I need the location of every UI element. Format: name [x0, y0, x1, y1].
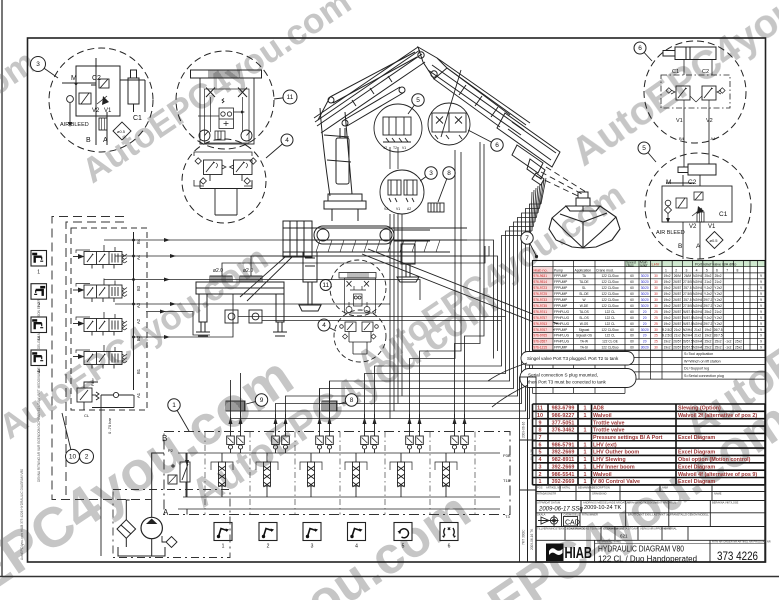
- svg-text:2: 2: [675, 268, 677, 272]
- detail 6 labels: [672, 69, 713, 124]
- svg-text:ø0.5: ø0.5: [710, 238, 719, 243]
- svg-text:257.5: 257.5: [684, 286, 692, 290]
- detail 5 B A drops: [683, 222, 700, 259]
- crane lift cylinder: [342, 87, 405, 126]
- leg lock valve left: [225, 310, 238, 323]
- svg-text:SL-DE: SL-DE: [579, 292, 588, 296]
- mid 11 frame: [345, 278, 376, 313]
- wire B4: [104, 238, 494, 359]
- detail 11 body frame: [200, 78, 254, 144]
- svg-text:B4: B4: [136, 238, 141, 244]
- svg-text:976-9763: 976-9763: [534, 322, 548, 326]
- mid 4 trunk: [349, 332, 371, 355]
- svg-text:C1: C1: [719, 211, 728, 218]
- svg-text:ø0.5: ø0.5: [117, 129, 126, 134]
- svg-text:30: 30: [654, 274, 658, 278]
- svg-text:0 -70 bar: 0 -70 bar: [107, 417, 112, 434]
- svg-text:122 CL-DE: 122 CL-DE: [602, 340, 618, 344]
- mid 11 center valve: [350, 286, 366, 306]
- crane valve circle S3: [380, 170, 424, 214]
- svg-text:N2/H4: N2/H4: [693, 322, 702, 326]
- svg-text:FPPUMP: FPPUMP: [554, 292, 567, 296]
- throttle item 9: [226, 401, 245, 411]
- note bubble 1: [488, 352, 634, 382]
- suction filter diamond: [117, 500, 136, 547]
- svg-text:19x2: 19x2: [664, 298, 671, 302]
- svg-text:26/57: 26/57: [673, 286, 681, 290]
- side disclaimer text (rotated): [20, 287, 41, 560]
- svg-text:25x2: 25x2: [735, 340, 742, 344]
- svg-text:SKALA: SKALA: [537, 513, 546, 517]
- detail circle 4: [182, 139, 266, 223]
- item list table: [537, 406, 757, 486]
- svg-text:19x2: 19x2: [664, 274, 671, 278]
- svg-text:3: 3: [429, 170, 433, 177]
- leg lock valve right: [249, 310, 262, 323]
- balloon 10: [62, 413, 80, 463]
- svg-text:N2/H4: N2/H4: [693, 304, 702, 308]
- detail 3 inner valves: [67, 79, 109, 127]
- svg-text:20: 20: [643, 340, 647, 344]
- svg-text:5: 5: [642, 145, 646, 152]
- item 9 risers: [231, 373, 241, 414]
- svg-text:5: 5: [706, 268, 708, 272]
- svg-text:26/57: 26/57: [673, 292, 681, 296]
- spool valve L3: [73, 312, 127, 336]
- svg-text:976-9767: 976-9767: [534, 328, 548, 332]
- svg-text:BRUTTOVIKT EXKL LAST/VIKT (kg): BRUTTOVIKT EXKL LAST/VIKT (kg): [628, 513, 671, 517]
- svg-text:25: 25: [654, 334, 658, 338]
- svg-text:V1: V1: [676, 118, 683, 124]
- detail 5 labels: [656, 179, 728, 250]
- svg-text:W: W: [582, 298, 585, 302]
- svg-text:-1x2: -1x2: [725, 346, 731, 350]
- detail circle 3: [49, 48, 153, 152]
- mid 4 valves: [340, 322, 379, 339]
- svg-text:V2: V2: [384, 207, 388, 211]
- svg-text:A: A: [103, 137, 108, 144]
- svg-text:A4: A4: [136, 254, 141, 260]
- svg-text:60: 60: [630, 292, 634, 296]
- detail 5 orifice diamond: [706, 232, 723, 249]
- svg-text:30/20: 30/20: [641, 286, 649, 290]
- svg-text:19x2: 19x2: [664, 322, 671, 326]
- svg-text:CADMODELL: CADMODELL: [564, 513, 581, 517]
- svg-text:Y.2x2: Y.2x2: [714, 298, 722, 302]
- svg-text:4: 4: [285, 137, 289, 144]
- svg-text:TA-SI: TA-SI: [580, 346, 588, 350]
- svg-text:MATERIAL: MATERIAL: [664, 526, 677, 530]
- svg-text:3: 3: [685, 268, 687, 272]
- valve bank B A labels: [162, 434, 169, 517]
- balloon 6 (crane): [468, 130, 503, 151]
- svg-text:FPHPLUG: FPHPLUG: [554, 316, 570, 320]
- svg-text:20: 20: [643, 334, 647, 338]
- svg-text:Sigvast: Sigvast: [579, 328, 590, 332]
- svg-text:26/M: 26/M: [684, 274, 691, 278]
- svg-text:A2: A2: [407, 207, 411, 211]
- svg-text:25: 25: [654, 316, 658, 320]
- svg-text:GRANSKAD: GRANSKAD: [592, 492, 607, 496]
- detail 4 outer bracket: [194, 152, 252, 186]
- svg-text:9: 9: [760, 310, 762, 314]
- svg-text:Singel valve Port T3 plugged.: Singel valve Port T3 plugged. Port T2 to…: [527, 356, 619, 361]
- detail 6 valve right: [702, 86, 725, 100]
- CL label: [84, 413, 90, 418]
- svg-text:60: 60: [630, 334, 634, 338]
- svg-text:9: 9: [760, 334, 762, 338]
- svg-text:Port relief valve B/A ditto: Port relief valve B/A ditto: [695, 262, 736, 266]
- svg-text:FPHPLUG: FPHPLUG: [554, 334, 570, 338]
- outrigger beam diagonals: [362, 249, 558, 330]
- svg-text:976-9725: 976-9725: [534, 292, 548, 296]
- svg-text:976-9733: 976-9733: [534, 298, 548, 302]
- svg-text:26/57: 26/57: [673, 280, 681, 284]
- grab clamshell: [549, 206, 620, 248]
- throttle item 8: [322, 401, 337, 411]
- wire A3: [115, 302, 390, 306]
- balloon 11 (mid): [320, 280, 332, 291]
- svg-text:Sigvast-OS: Sigvast-OS: [576, 334, 592, 338]
- svg-text:60: 60: [630, 322, 634, 326]
- svg-text:26/57: 26/57: [673, 298, 681, 302]
- svg-text:V1: V1: [104, 108, 112, 114]
- svg-text:P2: P2: [168, 448, 174, 453]
- svg-text:FPHPLUG: FPHPLUG: [554, 310, 570, 314]
- leg assembly beam: [196, 282, 284, 294]
- detail 11 shutoff X right: [238, 88, 247, 98]
- svg-text:26/57.5: 26/57.5: [682, 316, 693, 320]
- item 8 throttle on crane: [428, 203, 444, 212]
- svg-text:1: 1: [665, 268, 667, 272]
- svg-text:N2/H4: N2/H4: [683, 334, 692, 338]
- detail 6 cylinder: [663, 47, 716, 60]
- mid 11 mount bar: [339, 273, 376, 279]
- svg-text:C2: C2: [92, 75, 101, 82]
- svg-text:9: 9: [760, 280, 762, 284]
- svg-text:976-2657: 976-2657: [534, 340, 548, 344]
- svg-text:20: 20: [643, 322, 647, 326]
- leg assembly right leg: [273, 294, 287, 336]
- wire leg locks right: [238, 317, 506, 321]
- svg-text:B3: B3: [136, 285, 141, 291]
- svg-text:9: 9: [760, 322, 762, 326]
- svg-text:27.5/5: 27.5/5: [683, 292, 692, 296]
- svg-text:257.5: 257.5: [684, 298, 692, 302]
- svg-text:W=Winch on lift station: W=Winch on lift station: [684, 359, 721, 363]
- svg-text:26/M: 26/M: [674, 274, 681, 278]
- svg-text:27.5/5: 27.5/5: [683, 280, 692, 284]
- svg-text:9.2.5/2: 9.2.5/2: [662, 328, 672, 332]
- wire lock pilot: [146, 310, 210, 336]
- svg-text:CAD: CAD: [565, 520, 580, 527]
- svg-text:30/20: 30/20: [641, 346, 649, 350]
- svg-text:AutoEPC4you.com HIAB 373 4226: AutoEPC4you.com HIAB 373 4226 HYDRAULIC …: [20, 469, 24, 560]
- svg-text:N2/H4: N2/H4: [683, 328, 692, 332]
- svg-text:2009-10-24 TK: 2009-10-24 TK: [584, 505, 621, 511]
- svg-text:21x2: 21x2: [704, 280, 711, 284]
- svg-text:26/57.5: 26/57.5: [682, 322, 693, 326]
- svg-text:122 CL/Duo: 122 CL/Duo: [601, 304, 618, 308]
- svg-text:26/57: 26/57: [673, 304, 681, 308]
- svg-text:ANTAL: ANTAL: [562, 486, 571, 490]
- svg-text:6: 6: [495, 142, 499, 149]
- svg-text:FPPUMP: FPPUMP: [554, 286, 567, 290]
- svg-text:26/7.5: 26/7.5: [714, 334, 723, 338]
- svg-text:ARTIKEL NR: ARTIKEL NR: [546, 486, 561, 490]
- svg-text:N2/H4: N2/H4: [693, 274, 702, 278]
- relief valve (left box): [77, 377, 134, 410]
- function icon 4: [31, 350, 47, 375]
- svg-text:W-DE: W-DE: [580, 304, 588, 308]
- projection symbol: [538, 515, 559, 526]
- svg-text:60: 60: [630, 274, 634, 278]
- bank section at 222: [211, 436, 244, 497]
- svg-text:Y.2x2: Y.2x2: [714, 304, 722, 308]
- balloon 3 (crane): [420, 167, 437, 181]
- svg-text:Y.2x2: Y.2x2: [704, 286, 712, 290]
- svg-text:21x2: 21x2: [694, 328, 701, 332]
- CAD box: [564, 517, 578, 527]
- svg-text:60: 60: [630, 304, 634, 308]
- balloon 6: [634, 42, 652, 61]
- svg-text:30: 30: [654, 286, 658, 290]
- bank section at 356: [345, 436, 378, 497]
- svg-text:9.2.5/2: 9.2.5/2: [662, 334, 672, 338]
- svg-text:TA-W: TA-W: [580, 340, 588, 344]
- svg-text:NAME: NAME: [714, 492, 722, 496]
- svg-text:POS: POS: [537, 486, 543, 490]
- svg-text:HIAB: HIAB: [565, 545, 593, 562]
- svg-text:HYDRAULIC DIAGRAM V80: HYDRAULIC DIAGRAM V80: [598, 544, 684, 554]
- svg-text:9: 9: [760, 340, 762, 344]
- svg-text:26/57: 26/57: [673, 316, 681, 320]
- svg-text:S=Serial connection plug: S=Serial connection plug: [684, 374, 724, 378]
- svg-text:25x2: 25x2: [735, 346, 742, 350]
- svg-text:2: 2: [267, 544, 270, 550]
- parts selection table: [488, 260, 771, 563]
- svg-text:30/20: 30/20: [641, 328, 649, 332]
- svg-text:11: 11: [322, 282, 329, 289]
- detail 3 orifice diamond: [113, 122, 131, 140]
- detail 5 inner valves: [665, 192, 705, 223]
- svg-text:26/57.5: 26/57.5: [682, 340, 693, 344]
- svg-text:8: 8: [736, 268, 738, 272]
- svg-text:FPHPLUG: FPHPLUG: [554, 322, 570, 326]
- detail 11 center valve: [219, 99, 245, 129]
- svg-text:976-9741: 976-9741: [534, 310, 548, 314]
- svg-text:122 CL: 122 CL: [605, 316, 616, 320]
- svg-text:Y.2x2: Y.2x2: [714, 286, 722, 290]
- mid 11 X marks: [347, 281, 370, 287]
- detail 3 small hatch block: [99, 118, 107, 130]
- svg-text:26/57: 26/57: [673, 310, 681, 314]
- svg-text:N2/H4: N2/H4: [693, 280, 702, 284]
- detail 4 valve left: [204, 160, 227, 175]
- detail 5 valve block: [662, 175, 732, 222]
- svg-text:19x2: 19x2: [664, 340, 671, 344]
- svg-text:19x2: 19x2: [704, 328, 711, 332]
- svg-text:26/57: 26/57: [673, 322, 681, 326]
- svg-text:122 CL / Duo Handoperated: 122 CL / Duo Handoperated: [598, 554, 697, 564]
- svg-text:122 CL/Duo: 122 CL/Duo: [601, 274, 618, 278]
- svg-text:26/57: 26/57: [673, 340, 681, 344]
- svg-text:TA-OS: TA-OS: [579, 310, 589, 314]
- left manifold junctions: [132, 239, 135, 339]
- svg-text:UTFARDAT DATUM: UTFARDAT DATUM: [537, 500, 560, 504]
- svg-text:YHA 16: YHA 16: [530, 449, 534, 460]
- svg-text:25x2: 25x2: [704, 340, 711, 344]
- svg-text:2009-06-17 SSq: 2009-06-17 SSq: [538, 507, 583, 513]
- svg-text:976-9735: 976-9735: [534, 304, 548, 308]
- svg-text:9: 9: [260, 397, 264, 404]
- svg-text:25x2: 25x2: [704, 274, 711, 278]
- leg assembly label left: [213, 268, 223, 274]
- pump: [141, 453, 164, 539]
- svg-text:26/7.5: 26/7.5: [714, 328, 723, 332]
- detail 11 top mount bar: [191, 70, 262, 78]
- svg-text:AIR BLEED: AIR BLEED: [60, 122, 89, 128]
- svg-text:122 CL: 122 CL: [605, 310, 616, 314]
- svg-text:T3: T3: [505, 514, 510, 519]
- svg-text:Serial connection S plug moun: Serial connection S plug mounted,: [528, 373, 598, 378]
- detail 6 valve left: [666, 86, 690, 100]
- crane slew base: [324, 194, 366, 221]
- legend grid below table: [533, 350, 766, 393]
- detail 11 gauge right: [241, 130, 252, 141]
- drawing number 373 4226: [717, 551, 758, 563]
- balloon 7: [521, 232, 536, 256]
- spool valve L2: [73, 279, 127, 303]
- rotator link: [576, 192, 590, 211]
- svg-text:TA-DE: TA-DE: [579, 280, 588, 284]
- grab sling dashed lines: [536, 167, 586, 196]
- svg-text:C2: C2: [702, 69, 709, 75]
- crane stabilizer leg left: [299, 252, 321, 311]
- svg-text:RITN NR ORDER NR ARTIKEL NR PR: RITN NR ORDER NR ARTIKEL NR PRODUKT NR: [712, 540, 771, 544]
- HIAB logo: [546, 544, 592, 563]
- svg-text:25x2: 25x2: [704, 310, 711, 314]
- detail 3 cylinder C1: [128, 70, 139, 112]
- svg-text:N2/H4: N2/H4: [693, 298, 702, 302]
- label 0-70 bar: [107, 417, 112, 434]
- svg-text:UTGAVA NR: UTGAVA NR: [603, 526, 618, 530]
- svg-text:SL: SL: [582, 286, 586, 290]
- detail 3 valve block outline: [76, 58, 145, 145]
- leg assembly label right: [243, 268, 253, 274]
- svg-text:30/20: 30/20: [641, 280, 649, 284]
- svg-text:5: 5: [416, 97, 420, 104]
- leg assembly pad left: [210, 276, 232, 282]
- svg-text:FORSTA UTGAVA: FORSTA UTGAVA: [617, 526, 638, 530]
- left manifold vertical: [133, 232, 135, 390]
- svg-text:25x2: 25x2: [715, 346, 722, 350]
- svg-text:C2: C2: [688, 179, 697, 186]
- svg-text:21x2: 21x2: [715, 310, 722, 314]
- crane column: [320, 108, 352, 196]
- svg-text:8: 8: [447, 170, 451, 177]
- svg-text:122 CL/Duo: 122 CL/Duo: [601, 292, 618, 296]
- svg-text:2009-06-16: 2009-06-16: [522, 421, 526, 438]
- svg-text:B: B: [678, 243, 682, 250]
- svg-text:25x2: 25x2: [715, 340, 722, 344]
- return line: [185, 453, 189, 515]
- wire B3: [104, 278, 420, 301]
- svg-text:621: 621: [620, 534, 628, 539]
- leg assembly pad right: [240, 276, 262, 282]
- svg-text:DESCRIPTION: DESCRIPTION: [592, 486, 610, 490]
- crane valve circle S1: [374, 104, 422, 152]
- wire B1 to leg: [134, 294, 234, 339]
- svg-text:SL-OS: SL-OS: [579, 316, 589, 320]
- balloon 4: [266, 134, 293, 158]
- svg-text:1: 1: [172, 402, 176, 409]
- item 8 risers: [320, 381, 330, 414]
- svg-text:DL=Support leg: DL=Support leg: [684, 367, 709, 371]
- svg-text:29/7.2: 29/7.2: [703, 322, 712, 326]
- pump boundary: [113, 490, 230, 558]
- svg-text:9: 9: [760, 286, 762, 290]
- svg-text:A3: A3: [136, 302, 141, 308]
- svg-text:976-1215: 976-1215: [534, 346, 548, 350]
- crane chassis beam: [283, 221, 467, 257]
- svg-text:FPPUMP: FPPUMP: [554, 274, 567, 278]
- svg-text:M: M: [666, 179, 671, 186]
- svg-text:122 CL: 122 CL: [605, 322, 616, 326]
- bank top arrows: [229, 414, 467, 436]
- crane stabilizer leg right: [397, 244, 419, 282]
- svg-text:30/20: 30/20: [641, 292, 649, 296]
- svg-text:V1: V1: [708, 224, 716, 230]
- crane hose to S2: [441, 70, 461, 137]
- svg-text:RITNUMMER: RITNUMMER: [582, 513, 598, 517]
- svg-text:30/20: 30/20: [641, 274, 649, 278]
- hoses from boom tip to fan: [531, 178, 547, 236]
- svg-text:2: 2: [85, 454, 89, 461]
- note bubble 2: [492, 369, 636, 408]
- svg-text:B2: B2: [136, 335, 141, 341]
- svg-text:FRAMSTALLD GENOM MODELL: FRAMSTALLD GENOM MODELL: [670, 513, 709, 517]
- drawing title: [598, 544, 697, 564]
- spool valve L4: [73, 345, 127, 369]
- svg-text:21x2: 21x2: [674, 328, 681, 332]
- svg-text:Filter: Filter: [91, 377, 95, 386]
- svg-text:Y.2x2: Y.2x2: [714, 292, 722, 296]
- function icon box 1: [214, 523, 232, 550]
- svg-text:T2: T2: [393, 146, 397, 150]
- svg-text:V2: V2: [689, 224, 697, 230]
- svg-text:26/57.5: 26/57.5: [682, 310, 693, 314]
- svg-text:FPPUMP: FPPUMP: [554, 280, 567, 284]
- dashed valve group box: [71, 228, 147, 410]
- svg-text:29/7.2: 29/7.2: [703, 298, 712, 302]
- detail 4 corner diamonds: [195, 158, 256, 184]
- svg-text:19x2: 19x2: [664, 346, 671, 350]
- page edge left: [1, 0, 3, 576]
- svg-text:30: 30: [654, 346, 658, 350]
- crane link rods: [434, 68, 510, 127]
- svg-text:FPPUMP: FPPUMP: [554, 328, 567, 332]
- balloon 3: [31, 57, 59, 79]
- function icon 1: [31, 251, 47, 276]
- svg-text:FPPUMP: FPPUMP: [554, 298, 567, 302]
- svg-text:Pump: Pump: [554, 268, 563, 272]
- svg-text:ANDRINGS MEDDELANDE NR/DATUM: ANDRINGS MEDDELANDE NR/DATUM: [583, 500, 630, 504]
- svg-text:Y.2x2: Y.2x2: [714, 322, 722, 326]
- svg-text:19x2: 19x2: [664, 292, 671, 296]
- svg-text:25x2: 25x2: [715, 274, 722, 278]
- leg assembly left leg: [196, 294, 210, 336]
